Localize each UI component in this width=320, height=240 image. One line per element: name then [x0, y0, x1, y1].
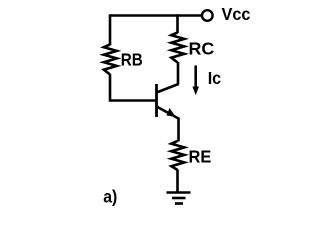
node Vcc terminal — [202, 10, 213, 21]
svg-text:a): a) — [103, 187, 117, 207]
wire collector lead — [177, 62, 180, 85]
wire top rail — [110, 14, 201, 17]
resistor RE — [171, 141, 184, 170]
wire emitter lead — [177, 118, 180, 142]
resistor RC — [171, 33, 184, 63]
transistor Q1 — [157, 84, 179, 119]
current arrow Ic — [192, 66, 199, 96]
wire left branch lower + base wire — [110, 74, 156, 101]
wire RC branch upper — [176, 14, 179, 33]
svg-text:RB: RB — [121, 50, 143, 70]
resistor RB — [104, 45, 117, 75]
svg-text:Ic: Ic — [208, 68, 222, 88]
svg-text:RE: RE — [189, 147, 212, 167]
svg-text:RC: RC — [189, 39, 215, 59]
wire to ground — [176, 170, 179, 193]
svg-text:Vcc: Vcc — [222, 4, 251, 24]
ground — [167, 193, 191, 204]
wire left branch upper — [109, 14, 112, 45]
